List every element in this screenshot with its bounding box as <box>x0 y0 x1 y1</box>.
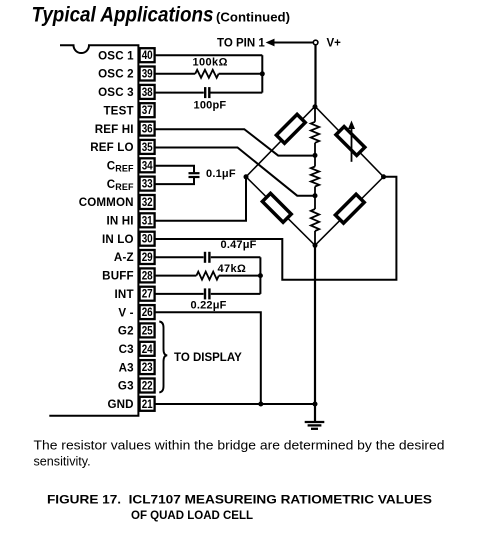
wire pin31 IN HI to bridge left vertex <box>155 177 247 221</box>
svg-text:21: 21 <box>142 399 154 411</box>
svg-text:29: 29 <box>142 252 153 264</box>
node bridge left vertex <box>244 174 249 179</box>
svg-text:C3: C3 <box>119 343 135 356</box>
svg-text:23: 23 <box>142 362 153 374</box>
resistor bridge chain bottom (between lower tap and bottom vertex) <box>311 196 319 246</box>
svg-text:31: 31 <box>142 215 154 227</box>
capacitor C3 0.47uF plates <box>205 252 209 263</box>
node bridge right vertex <box>381 174 386 179</box>
bridge diamond edges <box>246 106 384 245</box>
pin 28 box <box>140 268 155 282</box>
pin 35 box <box>140 140 155 154</box>
svg-text:COMMON: COMMON <box>79 196 134 209</box>
svg-text:25: 25 <box>142 325 154 337</box>
pin 21 box <box>140 397 155 411</box>
svg-text:0.47μF: 0.47μF <box>221 239 257 251</box>
resistor bridge chain top (between top vertex and upper tap) <box>311 106 319 155</box>
svg-text:47kΩ: 47kΩ <box>218 263 247 275</box>
svg-text:36: 36 <box>142 124 153 136</box>
wire pin35 REF LO to lower bridge tap <box>155 148 316 196</box>
svg-text:OSC 2: OSC 2 <box>98 68 134 81</box>
resistor bridge chain middle (between taps) <box>311 155 319 195</box>
svg-text:40: 40 <box>142 50 153 62</box>
svg-text:28: 28 <box>142 270 154 282</box>
resistor R2 47k zigzag <box>196 272 218 280</box>
svg-text:TEST: TEST <box>103 104 133 117</box>
svg-text:0.1μF: 0.1μF <box>206 168 236 180</box>
svg-text:V -: V - <box>118 306 133 319</box>
svg-text:BUFF: BUFF <box>102 270 134 283</box>
node bridge top vertex <box>313 104 318 109</box>
load cell bottom-right <box>335 194 364 223</box>
wire pin30 IN LO to bridge right vertex <box>155 177 397 280</box>
wire pin29 A-Z left of C3 <box>155 256 204 258</box>
svg-text:34: 34 <box>142 160 154 172</box>
title: Typical Applications (Continued) <box>32 4 291 27</box>
pin 30 box <box>140 232 155 246</box>
wire pin28 BUFF left of R2 <box>155 275 197 277</box>
node V- to ground rail junction <box>258 402 263 407</box>
pin 32 box <box>140 195 155 209</box>
wire TO PIN 1 from V+ node <box>273 42 314 44</box>
wire pin39 OSC2 left of R1 <box>155 73 196 75</box>
svg-text:REF HI: REF HI <box>95 123 134 136</box>
pin 33 box <box>140 177 155 191</box>
resistor R1 100k zigzag <box>195 70 218 78</box>
figure caption <box>47 495 432 523</box>
wire V+ node down to bridge top vertex <box>314 45 316 107</box>
wire C1 right to oscillator net <box>211 92 263 94</box>
node bridge bottom vertex <box>313 243 318 248</box>
wire bridge bottom vertex down to ground <box>314 245 316 421</box>
svg-text:30: 30 <box>142 234 153 246</box>
svg-text:sensitivity.: sensitivity. <box>34 454 91 468</box>
svg-text:38: 38 <box>142 87 154 99</box>
svg-text:32: 32 <box>142 197 153 209</box>
wire pin36 REF HI to upper bridge tap <box>155 129 316 155</box>
wire C2 bottom to pin33 CREF <box>155 178 195 184</box>
pin 29 box <box>140 250 155 264</box>
node TO PIN 1 arrow <box>217 38 275 50</box>
pin 27 box <box>140 287 155 301</box>
svg-text:The resistor values within the: The resistor values within the bridge ar… <box>34 439 445 453</box>
svg-text:CREF: CREF <box>107 160 134 174</box>
wire pin38 OSC3 left of C1 <box>155 92 204 94</box>
svg-text:OSC 3: OSC 3 <box>98 86 134 99</box>
wire pin40 OSC1 to oscillator net <box>155 54 263 56</box>
node bridge upper tap <box>313 153 318 158</box>
svg-text:100kΩ: 100kΩ <box>193 57 228 69</box>
pin 22 box <box>140 379 155 393</box>
svg-text:REF LO: REF LO <box>90 141 133 154</box>
wire oscillator net vertical <box>261 55 263 92</box>
svg-text:39: 39 <box>142 69 153 81</box>
svg-text:IN HI: IN HI <box>107 215 134 228</box>
pin 34 box <box>140 158 155 172</box>
svg-text:CREF: CREF <box>107 178 134 192</box>
wire pin21 GND to ground symbol <box>155 403 316 405</box>
wire C4 right to integrator net <box>211 293 261 295</box>
wire R1 right to oscillator net <box>219 73 263 75</box>
wire bridge edge bottom-right <box>315 177 384 246</box>
pin 24 box <box>140 342 155 356</box>
wire bridge edge top-right <box>315 106 384 177</box>
node integrator junction at pin28 <box>258 273 263 278</box>
svg-text:0.22μF: 0.22μF <box>191 300 227 312</box>
ground symbol <box>305 422 325 429</box>
arrow through top-right load cell <box>348 121 355 162</box>
pin numbers 40..21 <box>142 50 154 411</box>
svg-text:OF QUAD LOAD CELL: OF QUAD LOAD CELL <box>131 510 253 522</box>
capacitor C2 0.1uF plates <box>189 173 200 177</box>
node ground rail at bridge <box>313 402 318 407</box>
svg-text:26: 26 <box>142 307 153 319</box>
junction dots <box>244 71 387 406</box>
svg-text:FIGURE 17. ICL7107 MEASUREING: FIGURE 17. ICL7107 MEASUREING RATIOMETRI… <box>47 495 432 507</box>
svg-text:G2: G2 <box>118 325 134 338</box>
capacitor C4 0.22uF plates <box>205 288 209 299</box>
load cell bottom-left <box>262 193 291 222</box>
svg-text:Typical Applications: Typical Applications <box>32 4 214 27</box>
pin 23 box <box>140 360 155 374</box>
wire R2 right to integrator net <box>219 275 261 277</box>
svg-text:100pF: 100pF <box>194 100 227 112</box>
svg-text:(Continued): (Continued) <box>216 10 290 25</box>
node oscillator junction at pin39 <box>260 71 265 76</box>
wire integrator net vertical <box>259 257 261 294</box>
pin 26 box <box>140 305 155 319</box>
pin name labels inside IC <box>79 49 134 411</box>
wire pin27 INT left of C4 <box>155 293 204 295</box>
pin 36 box <box>140 122 155 136</box>
svg-text:35: 35 <box>142 142 154 154</box>
svg-text:G3: G3 <box>118 380 134 393</box>
op-amp U1 ICL7107 IC body outline with pin-1 notch <box>49 45 138 415</box>
pin 38 box <box>140 85 155 99</box>
pin boxes column: pins 40..21 <box>140 48 155 411</box>
brace TO DISPLAY grouping pins 25-22 <box>159 322 167 393</box>
note paragraph <box>34 439 445 469</box>
svg-text:37: 37 <box>142 105 153 117</box>
pin 39 box <box>140 67 155 81</box>
pin 31 box <box>140 213 155 227</box>
load cell top-left <box>276 114 305 143</box>
svg-text:A-Z: A-Z <box>114 251 134 264</box>
svg-text:IN LO: IN LO <box>102 233 134 246</box>
wire pin26 V- down to ground rail <box>155 312 261 404</box>
svg-text:22: 22 <box>142 381 153 393</box>
wire bridge edge left-top <box>246 106 315 177</box>
wire C3 right to integrator net <box>211 256 261 258</box>
wire bridge edge left-bottom <box>246 177 315 246</box>
node V+ terminal circle <box>313 40 318 45</box>
load cell top-right (adjustable) <box>336 127 365 156</box>
svg-text:OSC 1: OSC 1 <box>98 49 134 62</box>
svg-text:27: 27 <box>142 289 153 301</box>
wire pin34 CREF to C2 top <box>155 166 195 172</box>
pin 37 box <box>140 103 155 117</box>
svg-text:33: 33 <box>142 179 153 191</box>
node bridge lower tap <box>313 193 318 198</box>
pin 25 box <box>140 323 155 337</box>
svg-text:GND: GND <box>107 398 133 411</box>
pin 40 box <box>140 48 155 62</box>
svg-text:INT: INT <box>115 288 134 301</box>
svg-text:24: 24 <box>142 344 154 356</box>
capacitor C1 100pF plates <box>205 87 209 98</box>
svg-text:TO DISPLAY: TO DISPLAY <box>174 352 242 364</box>
svg-text:TO PIN 1: TO PIN 1 <box>217 38 265 50</box>
svg-text:A3: A3 <box>119 361 135 374</box>
svg-text:V+: V+ <box>327 38 342 50</box>
